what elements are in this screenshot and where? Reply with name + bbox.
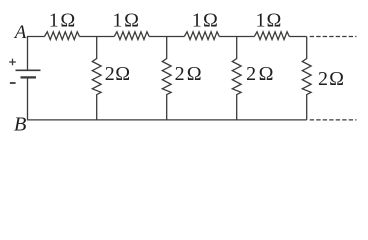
wire top rail segment R3-R4 — [219, 36, 254, 38]
wire top rail segment R1-R2 — [80, 36, 115, 38]
svg-text:Ω: Ω — [115, 63, 130, 85]
resistor R1 1ohm — [45, 32, 80, 40]
svg-text:2: 2 — [246, 63, 256, 85]
battery minus sign — [10, 82, 16, 84]
svg-text:A: A — [13, 22, 27, 43]
resistor R5 2ohm shunt with leads — [92, 37, 101, 120]
resistor R6 2ohm shunt with leads — [162, 37, 171, 120]
resistor R3 1ohm — [184, 32, 219, 40]
svg-text:1: 1 — [49, 10, 59, 32]
resistor R7 2ohm shunt with leads — [232, 37, 241, 120]
svg-text:Ω: Ω — [124, 10, 139, 32]
svg-text:Ω: Ω — [187, 63, 202, 85]
resistor R4 1ohm — [254, 32, 289, 40]
wire top rail segment A-R1 — [28, 37, 45, 71]
svg-text:Ω: Ω — [267, 10, 282, 32]
svg-text:B: B — [14, 114, 27, 136]
battery V1 short plate — [21, 76, 37, 78]
resistor R8 2ohm shunt with leads — [302, 37, 311, 120]
svg-text:1: 1 — [256, 10, 266, 32]
svg-text:1: 1 — [192, 10, 202, 32]
battery V1 long plate — [16, 69, 41, 71]
wire top rail segment R4-end — [289, 36, 306, 38]
wire bottom rail — [28, 78, 307, 120]
svg-text:2: 2 — [105, 63, 115, 85]
wire top rail dashed continuation — [310, 36, 357, 38]
svg-text:Ω: Ω — [60, 10, 75, 32]
wire bottom rail dashed continuation — [310, 119, 357, 121]
resistor R2 1ohm — [114, 32, 149, 40]
svg-text:1: 1 — [112, 10, 122, 32]
battery plus sign — [9, 61, 16, 63]
svg-text:Ω: Ω — [203, 10, 218, 32]
svg-text:Ω: Ω — [329, 68, 344, 90]
svg-text:2: 2 — [175, 63, 185, 85]
svg-text:2: 2 — [318, 68, 328, 90]
wire top rail segment R2-R3 — [149, 36, 184, 38]
svg-text:Ω: Ω — [259, 63, 274, 85]
